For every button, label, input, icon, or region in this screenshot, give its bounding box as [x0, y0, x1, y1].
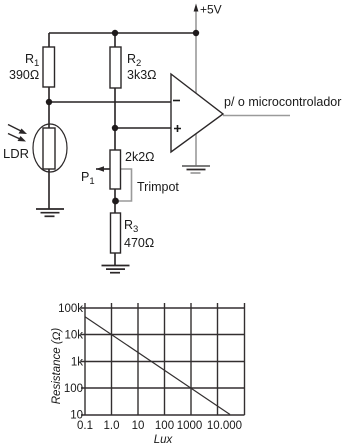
svg-text:2k2Ω: 2k2Ω — [125, 150, 155, 164]
svg-text:R2: R2 — [127, 52, 141, 69]
svg-text:100k: 100k — [58, 303, 83, 315]
svg-text:1000: 1000 — [177, 420, 203, 432]
svg-text:P1: P1 — [81, 170, 95, 187]
svg-text:10k: 10k — [64, 329, 83, 341]
svg-text:10.000: 10.000 — [207, 420, 242, 432]
svg-text:LDR: LDR — [3, 146, 29, 161]
svg-text:Resistance (Ω): Resistance (Ω) — [51, 328, 63, 405]
svg-text:100: 100 — [64, 383, 83, 395]
svg-text:R1: R1 — [25, 52, 39, 69]
svg-text:1k: 1k — [71, 357, 83, 369]
svg-text:0.1: 0.1 — [77, 420, 93, 432]
svg-text:+5V: +5V — [200, 3, 222, 17]
svg-text:Trimpot: Trimpot — [137, 180, 179, 194]
svg-text:390Ω: 390Ω — [9, 68, 39, 82]
svg-text:3k3Ω: 3k3Ω — [127, 68, 157, 82]
svg-text:100: 100 — [155, 420, 174, 432]
svg-text:R3: R3 — [124, 218, 138, 235]
svg-text:p/ o microcontrolador: p/ o microcontrolador — [224, 95, 341, 109]
svg-text:Lux: Lux — [154, 434, 174, 446]
svg-text:470Ω: 470Ω — [124, 236, 154, 250]
svg-text:1.0: 1.0 — [104, 420, 120, 432]
svg-text:10: 10 — [132, 420, 145, 432]
